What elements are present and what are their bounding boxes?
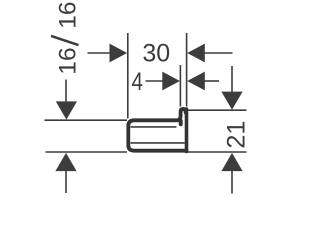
hook tip upturn: [177, 109, 186, 120]
dimension 21 up arrowhead: [221, 153, 242, 171]
dimension 30 left tail: [88, 52, 112, 54]
hook tip cap fill: [181, 108, 185, 112]
svg-text:30: 30: [142, 40, 170, 68]
dimension 16/16 bottom tail: [65, 170, 67, 194]
dimension 16/16 up arrowhead: [55, 153, 76, 171]
dimension 4 left arrowhead: [162, 72, 180, 91]
dimension 21 down arrowhead: [221, 92, 242, 110]
hook tip inner curl end: [179, 121, 183, 124]
dimension 16/16 leader line: [65, 80, 67, 104]
svg-text:16: 16: [55, 1, 82, 28]
wire: right bottom reference line y=152: [187, 151, 247, 153]
dimension 16/16 down arrowhead: [56, 101, 77, 119]
hook inner top contour: [131, 126, 177, 128]
wire: extension line hook tip x=180.4: [179, 65, 181, 107]
dimension 21 label (rotated): [222, 121, 250, 149]
hook inner bottom contour: [131, 142, 185, 144]
svg-text:16: 16: [55, 47, 82, 74]
dimension 4 right tail: [204, 80, 219, 82]
dimension 30 right tail: [204, 52, 233, 54]
wire: left bottom reference line y=152: [46, 151, 128, 153]
wall plate face: [185, 109, 189, 152]
dimension 21 bottom tail: [231, 170, 233, 194]
dimension 16/16 label (rotated): [51, 1, 82, 74]
svg-text:4: 4: [132, 68, 144, 96]
dimension 4 right arrowhead: [187, 72, 205, 91]
hook body outline: [128, 120, 186, 150]
wire: right top reference line y=110: [188, 109, 247, 111]
wire: extension line plate face x=186.6: [186, 33, 188, 107]
dimension 21 top tail: [231, 66, 233, 94]
dimension 30 left arrowhead: [110, 44, 128, 63]
wire: left top reference line y=120: [45, 119, 128, 121]
dimension 4 left tail: [146, 80, 165, 82]
dimension 30 right arrowhead: [187, 44, 205, 63]
wire: extension line front face x=127.5: [127, 33, 129, 119]
svg-text:21: 21: [222, 121, 250, 149]
